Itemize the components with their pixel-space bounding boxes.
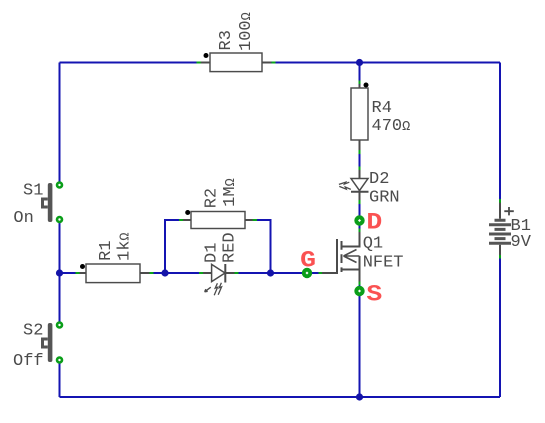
svg-text:GRN: GRN [369,189,400,208]
Q1 drain stub [343,232,360,247]
R4 leads [359,84,361,150]
R3 pin 1 connection tick [197,62,201,64]
svg-text:100Ω: 100Ω [237,12,256,51]
Q1 body arrow [344,250,360,263]
B1 long cell plates [489,225,511,243]
svg-text:1MΩ: 1MΩ [221,178,240,207]
D1 light emission bolt 1 [214,283,217,295]
wire top rail [60,62,501,64]
junction left rail / R1 [56,269,63,276]
R2 body [191,212,245,229]
resistor R4 [351,81,410,154]
Q1 source connection tick [359,282,361,286]
svg-text:D: D [366,210,382,236]
D2 light emission arrow 2 [339,186,351,189]
Q1 drain connection tick [359,229,361,232]
Q1 gate connection tick [319,272,323,274]
D1 light emission bolt 2 [218,283,221,295]
svg-text:Off: Off [13,352,44,371]
Q1 gate lead and plate [322,239,337,273]
svg-text:RED: RED [221,232,240,263]
R2 origin dot [185,210,190,215]
wire right rail [499,63,501,398]
svg-text:On: On [13,209,33,228]
R4 pin 1 connection tick [359,81,361,85]
D2 triangle [351,179,368,191]
B1 negative terminal connection tick [499,255,501,258]
S2 contact bar [48,323,53,362]
B1 positive terminal connection tick [499,199,501,203]
D1 cathode bar [224,264,226,283]
svg-text:NFET: NFET [363,253,404,272]
wire bottom rail [60,396,501,398]
S2 pushbutton actuator [43,339,48,347]
transistor Q1 NFET [319,229,404,285]
svg-text:1kΩ: 1kΩ [115,232,134,261]
S2 terminal 1 (open) [57,323,62,328]
D2 leads [359,170,361,200]
D1 cathode connection tick [235,272,239,274]
svg-text:S: S [366,282,382,308]
S1 pushbutton actuator [43,199,48,207]
R1 leads [80,272,150,274]
terminal S (green) [354,286,364,296]
D1 light emission arrows [205,287,211,292]
R2 pin 2 connection tick [253,219,257,221]
LED D2 GRN [339,167,400,208]
terminal D (green) [354,215,364,225]
wire left rail [59,63,61,398]
svg-text:S2: S2 [23,322,43,341]
R3 body [210,53,262,72]
svg-text:S1: S1 [23,182,43,201]
R3 origin dot [204,53,209,58]
svg-text:Q1: Q1 [363,235,383,254]
svg-text:R2: R2 [202,188,221,208]
LED D1 RED [199,232,240,295]
resistor R1 [76,232,154,282]
svg-text:R3: R3 [217,30,236,50]
S1 contact bar [48,183,53,222]
D2 light emission arrows [339,182,349,184]
R1 pin 2 connection tick [150,272,154,274]
S1 terminal 2 (open) [57,217,62,222]
junction top (R4 branch / top rail) [356,59,363,66]
D2 cathode bar [351,191,369,193]
B1 plus sign [504,207,514,215]
battery B1 [489,199,532,258]
R1 origin dot [80,264,85,269]
svg-text:D1: D1 [203,243,222,263]
junction R1 right / R2 branch [161,269,168,276]
svg-text:9V: 9V [511,233,532,252]
svg-text:R1: R1 [97,240,116,260]
junction bottom rail / source [356,393,363,400]
B1 short cell plates [495,220,506,238]
R4 pin 2 connection tick [359,150,361,154]
R4 origin dot [364,83,369,88]
switch S1 (On) [13,182,62,228]
terminal G (green) [302,268,312,278]
D2 cathode connection tick [359,200,361,204]
R3 pin 2 connection tick [271,62,275,64]
R4 body [351,88,368,140]
R2 leads [183,219,253,221]
S2 terminal 2 (open) [57,358,62,363]
R3 leads [201,62,271,64]
R1 pin 1 connection tick [76,272,80,274]
D1 anode connection tick [199,272,203,274]
R1 body [86,264,140,283]
wire R2 loop [165,220,271,273]
wire R4/D2/Q1 branch [359,63,361,398]
D1 leads [203,272,235,274]
D2 anode connection tick [359,167,361,171]
svg-text:R4: R4 [372,99,392,118]
resistor R2 [179,178,257,228]
Q1 source stub [343,256,360,282]
svg-text:D2: D2 [369,170,389,189]
R2 pin 1 connection tick [179,219,183,221]
B1 leads [499,203,501,255]
svg-text:470Ω: 470Ω [372,117,411,136]
S1 terminal 1 (open) [57,183,62,188]
wire middle row (R1/D1/gate) [60,272,338,274]
Q1 channel (dashed) [341,241,343,272]
junction D1 right / R2 branch [267,269,274,276]
svg-text:G: G [300,248,316,274]
D1 triangle [212,264,225,281]
switch S2 (Off) [13,322,62,371]
resistor R3 [197,12,276,71]
